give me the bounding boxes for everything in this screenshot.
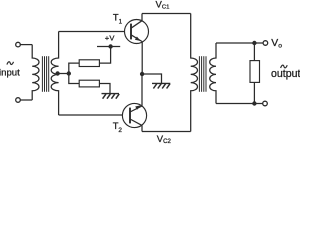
ground (bias divider) [102,94,120,99]
transistor T2 [122,103,146,127]
transformer TR1 core [42,56,48,92]
resistor R1 [79,60,99,67]
svg-text:Vo: Vo [271,38,282,49]
wire load bottom stem [253,82,255,103]
resistor R2 [79,80,99,87]
wire divider junction to R2 [69,74,79,84]
wire VC2 rail [142,131,191,133]
wire divider junction to R1 [69,63,79,73]
wire emitter node to ground [142,74,161,83]
ground (emitter) [152,83,170,88]
wire R1 to +V [99,47,110,64]
svg-text:T2: T2 [113,120,123,134]
wire center tap to divider [58,73,69,75]
wire VC1 rail [142,13,191,15]
wire secondary bottom to T2 base [59,114,123,116]
output terminal Vo (top) [263,41,268,46]
wire secondary top to Vo terminal [216,42,263,44]
+V supply rail [97,46,120,48]
transformer TR2 core [199,56,206,92]
transformer TR1 secondary winding (center-tapped) [51,32,58,116]
svg-text:VC2: VC2 [157,134,172,144]
wire secondary top to T1 base [59,31,125,33]
ac symbol input [7,62,14,65]
node load top [252,41,256,45]
ac symbol output [281,65,288,68]
svg-text:VC1: VC1 [156,0,170,11]
input terminal (top) [16,42,33,47]
node divider junction [67,71,71,75]
wire T1 emitter down to common node [141,42,143,74]
wire R2 to ground [99,84,110,94]
transformer TR2 primary winding [191,14,198,132]
wire load top stem [253,43,255,61]
svg-text:output: output [271,68,300,80]
transformer TR2 secondary winding [210,43,216,104]
input terminal (bottom) [16,98,33,103]
node load bottom [252,101,256,105]
wire T2 emitter up to common node [141,74,143,106]
node emitter junction [140,72,144,76]
resistor RL (load) [250,61,260,83]
wire T1 collector to VC1 rail [141,14,143,21]
node center tap [55,71,59,75]
wire T2 collector to VC2 rail [141,125,143,131]
wire secondary bottom to output terminal [216,103,263,105]
transformer TR1 primary winding [32,45,39,100]
output terminal (bottom) [263,101,268,106]
node +V [108,44,112,48]
svg-text:+V: +V [105,34,116,43]
svg-text:T1: T1 [113,12,123,26]
svg-text:input: input [0,67,20,78]
transistor T1 [125,20,149,44]
